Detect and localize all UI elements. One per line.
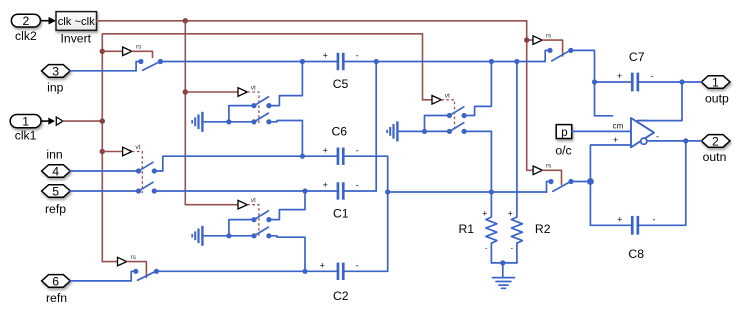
svg-text:-: - <box>656 131 659 141</box>
node junction cluster A control tap <box>183 89 188 94</box>
svg-text:vt: vt <box>445 92 450 99</box>
port 6 refn <box>42 275 71 288</box>
wire cluster A upper stair to C5 left <box>269 62 303 106</box>
node junction clk1 inn/refp tap <box>100 149 105 154</box>
capacitor C7 <box>617 71 654 92</box>
switch S4 refn (rs) <box>131 269 159 281</box>
node C5 right <box>374 59 379 64</box>
wire middle cluster lower to R rail <box>464 130 491 132</box>
wire inn <box>70 170 137 172</box>
svg-text:-: - <box>356 51 359 61</box>
svg-text:4: 4 <box>52 164 59 178</box>
capacitor C5 <box>323 51 359 71</box>
svg-text:3: 3 <box>52 64 59 78</box>
node outn junction <box>683 138 688 143</box>
svg-text:+: + <box>323 145 328 155</box>
svg-text:1: 1 <box>22 115 29 129</box>
switch S2 top right (rs) <box>545 48 573 62</box>
control buffer rs (refn switch) <box>118 254 147 278</box>
wire cluster A upper-left riser <box>229 106 253 122</box>
node C6 left <box>300 154 305 159</box>
svg-text:+: + <box>323 180 328 190</box>
port 4 inn <box>42 165 71 178</box>
wire inverted clock left column <box>185 21 238 205</box>
wire cluster B upper-left riser <box>229 220 253 236</box>
svg-text:+: + <box>323 51 328 61</box>
svg-text:C5: C5 <box>333 77 349 91</box>
svg-text:R1: R1 <box>459 222 475 236</box>
wire top rail (C5 row) <box>160 61 336 63</box>
node cluster A ground tee <box>226 119 231 124</box>
wire inp <box>70 70 136 72</box>
node outp junction <box>679 79 684 84</box>
wire refn control feed <box>102 261 117 263</box>
switch cluster B lower (to C2) <box>251 227 271 238</box>
svg-text:clk1: clk1 <box>15 129 37 143</box>
node rail / middle stair <box>489 59 494 64</box>
wire C7 row <box>595 81 631 83</box>
signal arrow clk2 to Invert <box>40 17 56 25</box>
svg-text:refp: refp <box>45 202 66 216</box>
capacitor C2 <box>320 260 359 280</box>
svg-text:5: 5 <box>52 184 59 198</box>
wire cluster B upper stair to C1 left <box>269 191 305 220</box>
wire top switch to C7 node <box>571 50 595 82</box>
node junction inverted clock / left column <box>183 18 188 23</box>
svg-text:2: 2 <box>712 134 719 148</box>
wire cm <box>572 130 631 132</box>
node C6/C2 tap to R rail <box>385 189 390 194</box>
svg-text:-: - <box>356 145 359 155</box>
wire refp to C1 <box>154 190 336 192</box>
svg-text:-: - <box>653 215 656 225</box>
switch S1 inp (rs) <box>136 59 163 71</box>
svg-text:C6: C6 <box>332 124 348 138</box>
node C1 left <box>302 188 307 193</box>
wire bottom switch to summing node <box>571 181 590 183</box>
svg-text:-: - <box>356 260 359 270</box>
op-amp inverting output bubble <box>641 138 647 144</box>
node junction top right control tap <box>524 37 529 42</box>
switch S6 refp (vt) <box>136 182 157 193</box>
switch cluster A upper (to C5) <box>251 97 271 108</box>
node C2 left <box>302 269 307 274</box>
port 1 outp <box>701 76 730 89</box>
svg-text:C1: C1 <box>333 206 349 220</box>
wire clk1 to clock column <box>63 120 102 122</box>
switch S5 inn (vt) <box>136 162 157 173</box>
op-amp U1 <box>631 118 654 147</box>
node middle cluster ground tee <box>422 129 427 134</box>
svg-text:outp: outp <box>705 91 729 105</box>
resistor R1 <box>482 131 497 263</box>
wire inverted clock rail <box>97 21 534 171</box>
ground earth below R1 R2 <box>493 263 515 288</box>
wire C8 right leg to outn <box>639 141 686 225</box>
svg-text:+: + <box>320 260 325 270</box>
svg-text:+: + <box>613 135 618 145</box>
svg-text:rs: rs <box>546 163 552 170</box>
svg-text:rs: rs <box>136 44 142 51</box>
svg-text:rs: rs <box>546 32 552 39</box>
control buffer vt (cluster A) <box>238 85 259 125</box>
control buffer rs (inp switch) <box>102 44 152 58</box>
svg-text:C2: C2 <box>333 289 349 303</box>
node C7 left / stub <box>592 79 597 84</box>
control buffer rs (top right switch) <box>527 32 563 56</box>
wire C1- to vertical <box>345 190 377 192</box>
signal arrow clk1 <box>41 118 55 125</box>
switch middle cluster upper (to top rail) <box>447 107 467 118</box>
svg-text:+: + <box>508 209 513 219</box>
inport 2 clk2 <box>11 14 40 27</box>
wire inn to C6 row <box>154 156 336 171</box>
resistor R2 <box>508 62 523 263</box>
switch cluster B upper (to C1) <box>251 211 271 222</box>
svg-text:1: 1 <box>712 75 719 89</box>
svg-text:-: - <box>651 71 654 81</box>
wire C5- to C1- vertical <box>375 62 377 192</box>
svg-text:o/c: o/c <box>555 144 571 158</box>
wire outp feedback to op-amp out+ <box>638 82 683 121</box>
capacitor C8 <box>617 215 655 235</box>
capacitor C1 <box>323 180 359 200</box>
svg-text:vt: vt <box>135 144 140 151</box>
control buffer vt (inn/refp switches) <box>102 144 142 193</box>
control buffer rs (bottom right switch) <box>533 163 561 185</box>
svg-text:cm: cm <box>613 122 624 131</box>
wire op-amp out+ pin <box>638 120 648 122</box>
svg-text:refn: refn <box>46 291 67 305</box>
svg-text:vt: vt <box>251 85 256 92</box>
wire R bottoms join <box>491 262 517 264</box>
ground cluster B <box>191 226 254 246</box>
block o/c (p) <box>556 125 572 139</box>
wire middle cluster upper-left riser <box>425 116 448 132</box>
ground cluster A <box>191 112 254 132</box>
wire refn <box>70 280 131 282</box>
node junction clk1 inp tap <box>100 49 105 54</box>
wire C8 left leg <box>590 182 631 226</box>
svg-text:R2: R2 <box>535 222 551 236</box>
wire cluster B lower to C2 left <box>269 236 305 271</box>
node R1 top <box>489 189 494 194</box>
svg-text:6: 6 <box>52 274 59 288</box>
wire op-amp plus input <box>590 145 631 182</box>
wire outn <box>647 140 701 142</box>
wire C6- down to C2- <box>345 156 388 271</box>
svg-text:clk ~clk: clk ~clk <box>58 16 95 28</box>
port 3 inp <box>42 65 71 78</box>
node R bottom junction <box>500 260 505 265</box>
svg-text:vt: vt <box>251 197 256 204</box>
svg-text:C8: C8 <box>628 247 644 261</box>
svg-text:clk2: clk2 <box>15 29 37 43</box>
wire refp <box>70 190 137 192</box>
converter triangle clk1 <box>56 117 63 125</box>
node C5 left <box>300 59 305 64</box>
inport 1 clk1 <box>10 115 41 128</box>
node rail / R2 <box>514 59 519 64</box>
wire cluster A control feed <box>185 91 238 93</box>
port 2 outn <box>701 135 730 148</box>
svg-text:C7: C7 <box>629 50 645 64</box>
wire C2- lead <box>345 270 388 272</box>
svg-text:+: + <box>617 215 622 225</box>
control buffer vt (middle cluster) <box>432 92 455 131</box>
wire middle cluster upper stair to top rail <box>464 62 491 116</box>
switch cluster A lower (to C6) <box>251 113 271 124</box>
svg-text:Invert: Invert <box>61 31 92 45</box>
node junction clk1 entry <box>100 118 105 123</box>
node cluster B ground tee <box>226 233 231 238</box>
svg-text:-: - <box>356 180 359 190</box>
node summing junction <box>587 178 594 185</box>
svg-text:+: + <box>482 209 487 219</box>
port 5 refp <box>42 185 71 198</box>
capacitor C6 <box>323 145 359 165</box>
wire R rail (y192) <box>388 191 547 193</box>
wire refn to C2 <box>156 270 336 272</box>
svg-text:outn: outn <box>703 150 727 164</box>
svg-text:2: 2 <box>23 14 30 28</box>
wire clk1 column <box>102 34 432 262</box>
wire C7 to outp <box>639 81 701 83</box>
svg-text:inn: inn <box>46 147 62 161</box>
svg-text:p: p <box>561 127 567 139</box>
switch middle cluster lower (to R rail) <box>447 123 467 134</box>
svg-text:+: + <box>617 71 622 81</box>
control buffer vt (cluster B) <box>238 197 259 237</box>
block Invert (clk ~clk) <box>56 12 97 31</box>
svg-text:rs: rs <box>130 254 136 261</box>
svg-text:inp: inp <box>47 81 63 95</box>
switch S3 bottom right (rs) <box>547 179 574 192</box>
wire stub to op-amp region <box>595 82 613 116</box>
ground middle cluster <box>386 121 449 141</box>
wire cluster A lower to C6 left <box>269 121 303 157</box>
